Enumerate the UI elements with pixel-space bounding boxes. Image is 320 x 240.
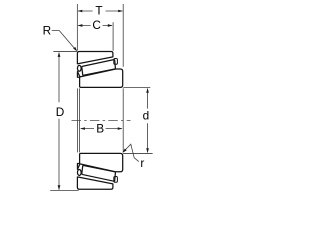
dimension D up arrow: [58, 52, 61, 57]
tapered roller (upper section): [82, 60, 116, 76]
D top extension line: [53, 51, 77, 53]
d top extension line: [123, 86, 150, 88]
svg-text:T: T: [95, 4, 102, 18]
svg-text:d: d: [143, 109, 150, 123]
C right extension line: [112, 22, 114, 51]
svg-text:D: D: [56, 105, 65, 119]
dimension B left arrow: [80, 127, 85, 130]
cone front face extension line (mid, B/T right): [122, 88, 124, 152]
T/C left extension line: [76, 4, 78, 51]
dimension B line: [81, 128, 122, 130]
dimension D down arrow: [58, 185, 61, 190]
cone inner ring (upper section): [77, 69, 122, 87]
cage large-end tab (lower section): [114, 177, 118, 183]
dimension d down arrow: [146, 148, 149, 153]
bearing axis centerline: [72, 119, 131, 121]
T right extension line: [122, 4, 124, 67]
dimension d line: [147, 89, 149, 153]
dimension B right arrow: [118, 127, 123, 130]
svg-text:C: C: [92, 18, 101, 32]
tapered roller (lower section): [82, 165, 116, 181]
dimension T left arrow: [78, 10, 83, 13]
dimension C right arrow: [108, 24, 113, 27]
r leader line: [124, 144, 139, 161]
cage small-end circle (lower section): [77, 170, 81, 176]
svg-text:B: B: [96, 122, 104, 136]
R leader line: [52, 31, 76, 50]
dimension D line: [58, 53, 60, 190]
D bottom extension line: [50, 189, 78, 191]
r leader arrow: [122, 149, 126, 153]
d bottom extension line: [123, 153, 153, 155]
cone inner ring (lower section): [77, 153, 122, 171]
svg-text:r: r: [140, 156, 144, 170]
cage large-end tab (upper section): [114, 59, 118, 65]
dimension C left arrow: [78, 24, 83, 27]
cup outer ring (upper section): [77, 52, 113, 64]
cage small-end circle (upper section): [77, 65, 81, 71]
svg-text:R: R: [43, 23, 52, 37]
cup back face extension line (mid): [76, 88, 78, 152]
cone back face extension line (mid): [79, 88, 81, 152]
dimension d up arrow: [146, 88, 149, 93]
dimension T right arrow: [118, 10, 123, 13]
R leader arrow: [73, 47, 77, 52]
cup outer ring (lower section): [77, 177, 113, 189]
dimension C line: [78, 25, 112, 27]
dimension T line: [78, 10, 122, 12]
